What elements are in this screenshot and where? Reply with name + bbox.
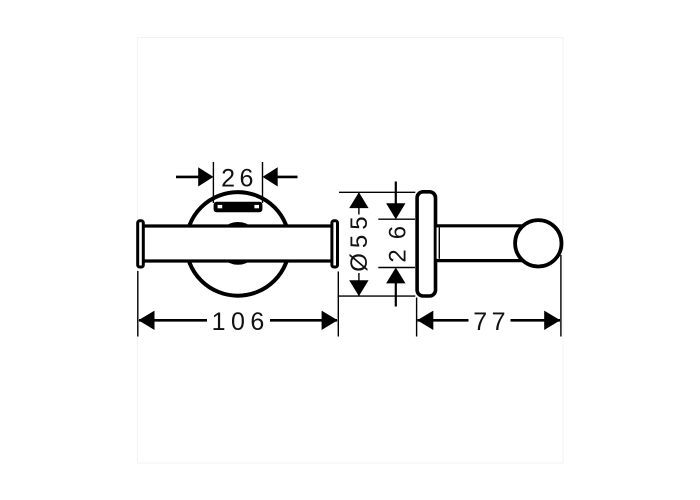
svg-text:77: 77 bbox=[473, 308, 510, 336]
dimension 77: line bbox=[418, 319, 561, 322]
svg-text:26: 26 bbox=[385, 216, 412, 263]
bar body bbox=[143, 226, 331, 260]
hook rod fill bbox=[437, 227, 523, 258]
dim 26 side: bottom extension line bbox=[378, 267, 415, 269]
hook rod top edge bbox=[435, 224, 523, 227]
dim O55: top extension line bbox=[339, 191, 415, 193]
dimension 26 top: left arrow bbox=[198, 167, 213, 186]
svg-text:Ø55: Ø55 bbox=[346, 211, 373, 271]
svg-text:26: 26 bbox=[221, 165, 258, 193]
right end cap bbox=[332, 221, 338, 267]
dim 26 side: top tail bbox=[395, 182, 397, 206]
dimension 26 top: left leader bbox=[176, 176, 200, 179]
wall bracket bbox=[214, 202, 263, 212]
bar top edge bbox=[143, 224, 331, 227]
dim O55: line bbox=[358, 193, 360, 296]
dimension 106: right arrow bbox=[322, 311, 338, 330]
dimension 77: right arrow bbox=[544, 311, 560, 330]
dim O55: top arrow bbox=[349, 192, 368, 208]
dimension 106: label background bbox=[207, 306, 270, 334]
dimension 77: left arrow bbox=[417, 311, 433, 330]
dimension 106: left arrow bbox=[138, 311, 154, 330]
dim O55: bottom arrow bbox=[349, 280, 368, 296]
dim 26 side: bottom tail bbox=[395, 283, 397, 307]
bar bottom edge bbox=[143, 259, 331, 262]
dimension 106: line bbox=[139, 319, 337, 322]
faint drawing frame bbox=[138, 38, 564, 464]
wall plate (side) bbox=[417, 192, 435, 296]
dimension 26 top: extension lines bbox=[212, 162, 214, 203]
hook rod bottom edge bbox=[435, 259, 523, 262]
mounting plate circle bbox=[186, 192, 290, 296]
bracket hole right bbox=[254, 205, 259, 208]
dim 26 side: top arrow bbox=[386, 203, 405, 219]
bracket hole left bbox=[218, 205, 223, 208]
svg-text:106: 106 bbox=[212, 308, 270, 336]
dim 26 side: bottom arrow bbox=[386, 268, 405, 284]
dimension 77: label background bbox=[469, 306, 511, 334]
ball end bbox=[515, 220, 561, 266]
left end cap bbox=[138, 221, 144, 267]
rod root contour bbox=[438, 227, 440, 258]
dim O55: bottom extension line bbox=[339, 295, 415, 297]
dimension 26 top: right leader bbox=[276, 176, 297, 179]
dim 26 side: top extension line bbox=[378, 218, 415, 220]
dim O55: label background bbox=[347, 215, 368, 274]
hub circle bbox=[218, 224, 258, 264]
dimension 106: extension lines bbox=[137, 271, 139, 337]
dimension 77: extension lines bbox=[416, 298, 418, 337]
dimension 26 top: right arrow bbox=[263, 167, 278, 186]
